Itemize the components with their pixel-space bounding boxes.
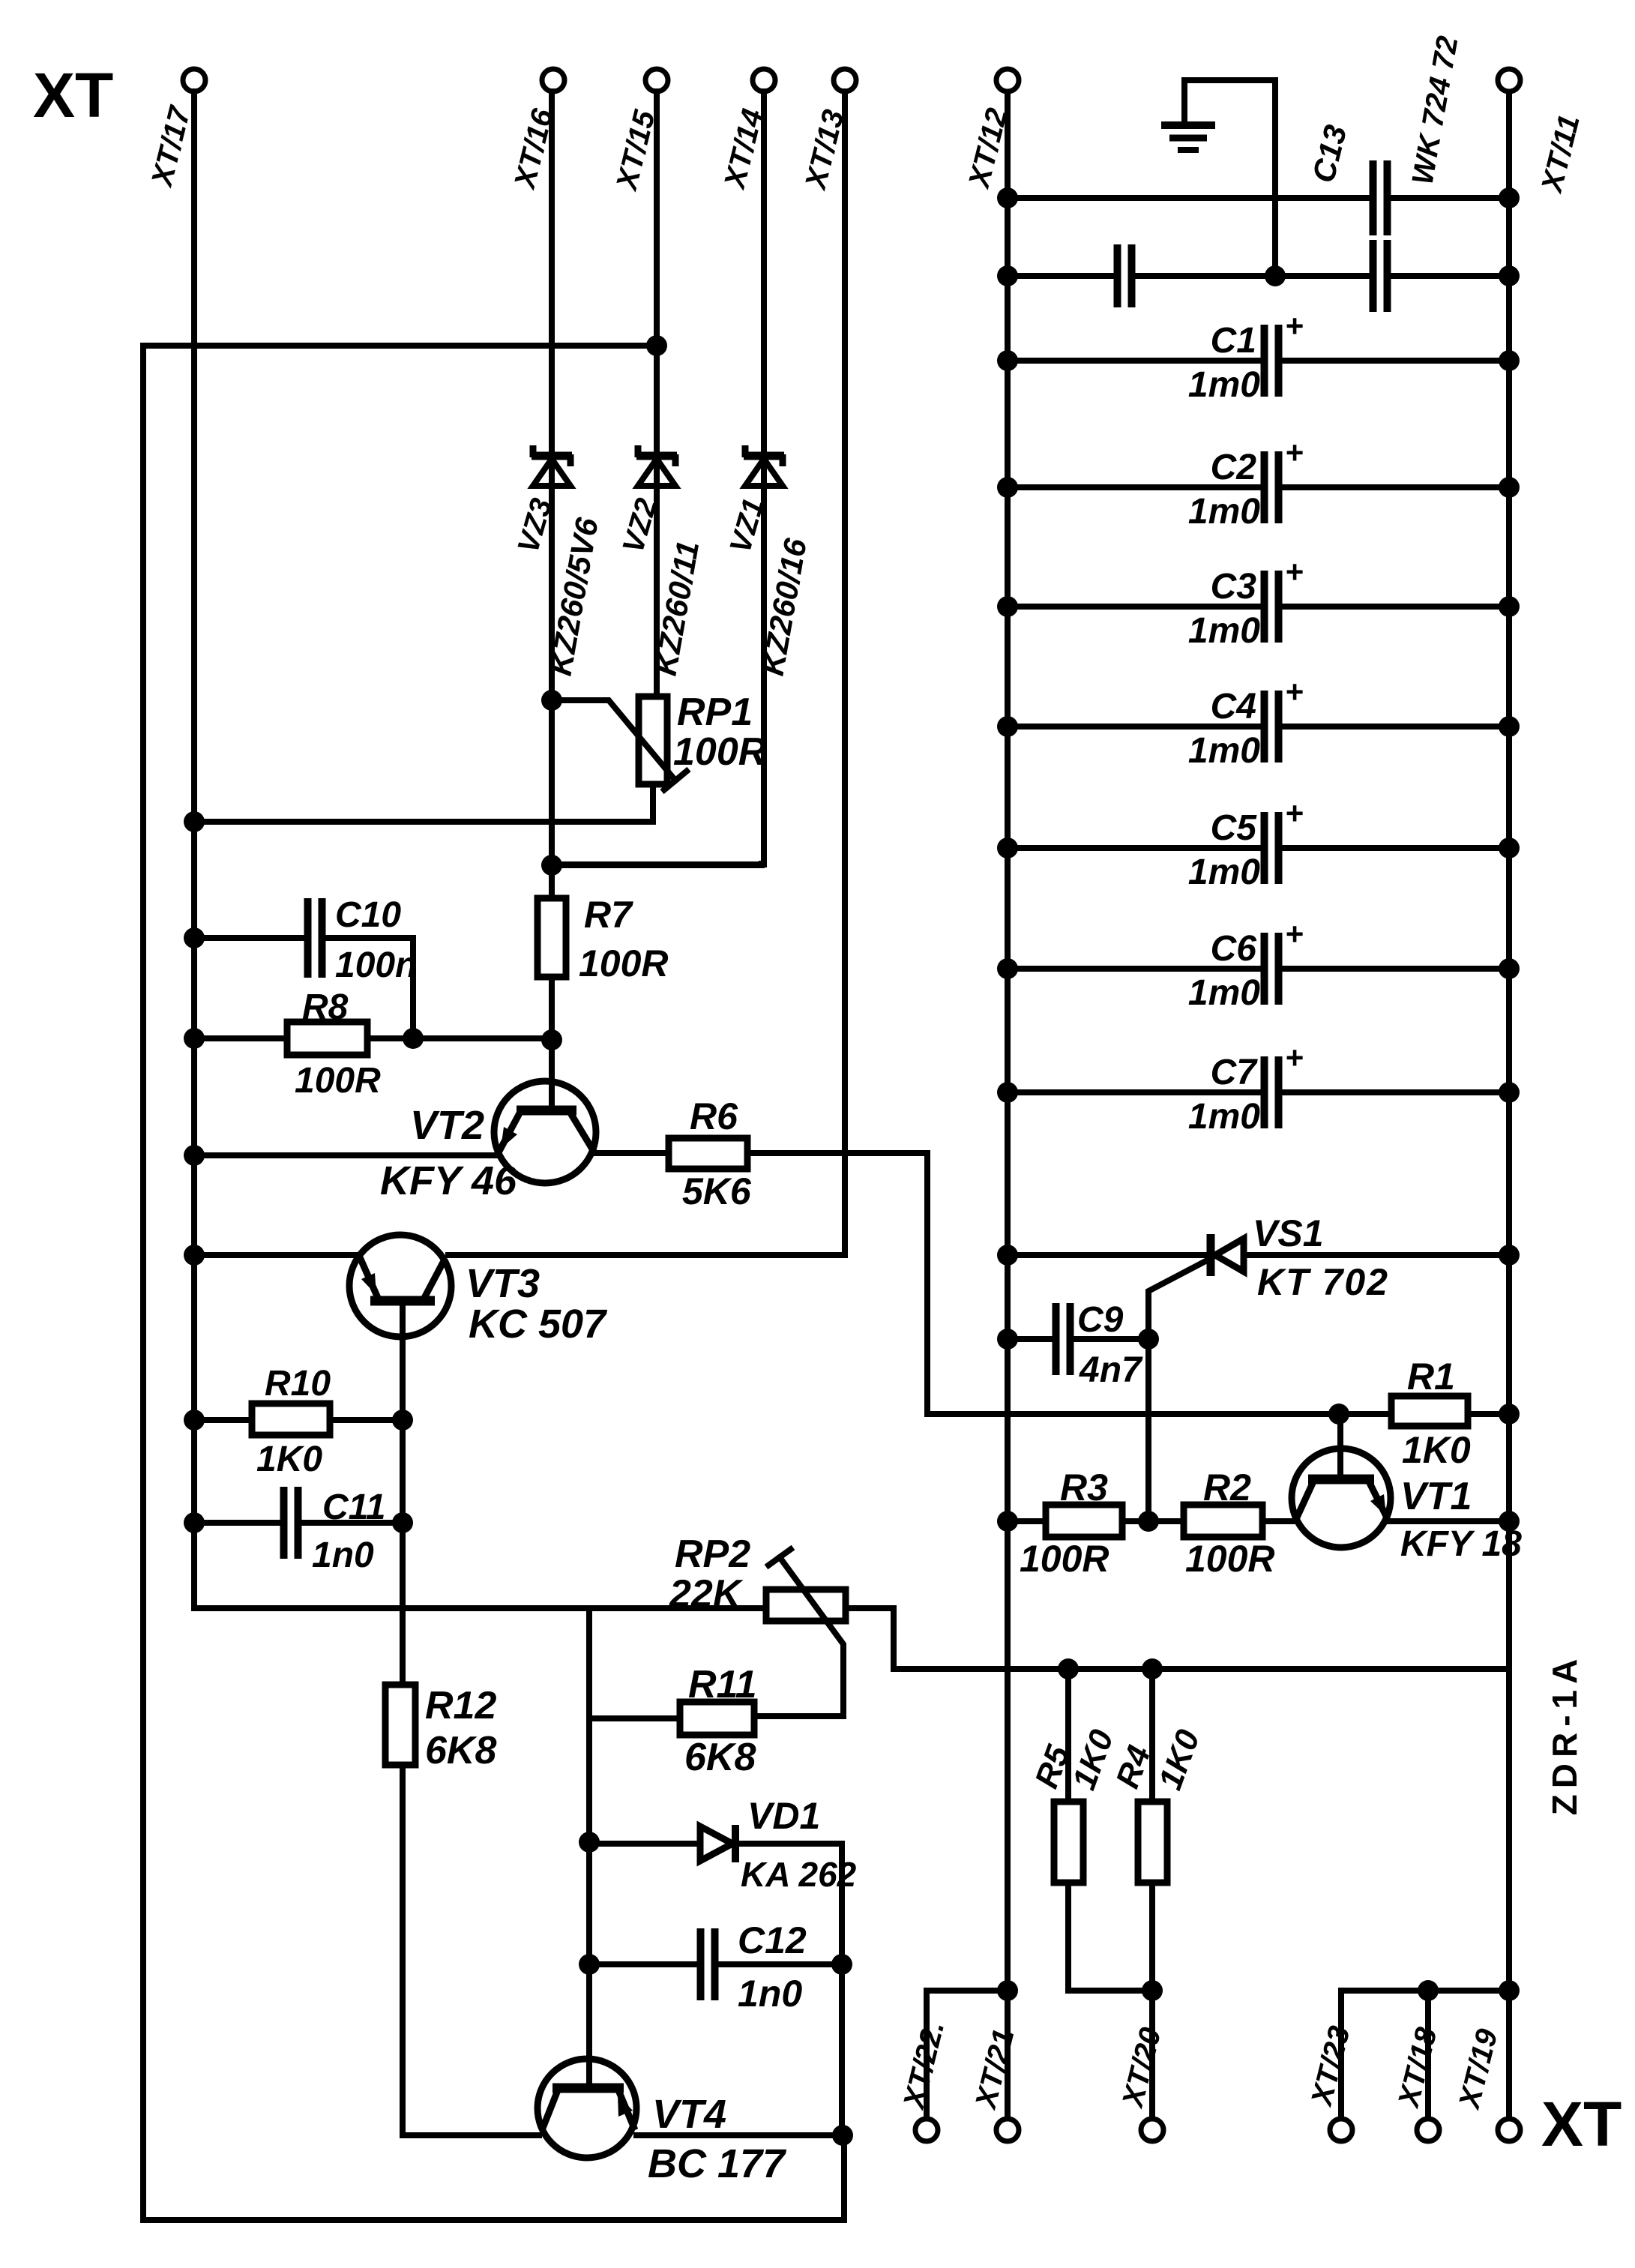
node junction C3 right (1499, 596, 1520, 617)
svg-text:KT 702: KT 702 (1257, 1261, 1389, 1303)
node junction C12 right (831, 1954, 852, 1975)
wire XT/23 to XT/18 line (1341, 1991, 1428, 2118)
node junction C2 left (997, 477, 1018, 498)
label ZDR-1A (1545, 1653, 1584, 1816)
transistor VT3 KC507 (349, 1235, 608, 1347)
node junction C7 left (997, 1082, 1018, 1103)
svg-text:100R: 100R (295, 1061, 381, 1101)
node junction VT1 base on R1 wire (1328, 1404, 1349, 1425)
terminal XT/12 (963, 69, 1019, 192)
svg-text:1m0: 1m0 (1188, 611, 1260, 651)
svg-text:1m0: 1m0 (1188, 365, 1260, 405)
node junction R3/R2/VS1 gate (1138, 1511, 1159, 1532)
zener VZ1 (723, 445, 813, 679)
svg-text:R12: R12 (425, 1684, 496, 1727)
capacitor C13 second section (1373, 240, 1510, 312)
wire top horizontal net XT/15 (143, 343, 657, 349)
node junction C12 left (579, 1954, 600, 1975)
wire XT/16 vertical lower to VT2 base (549, 977, 555, 1110)
node junction VT2 emitter on XT/17 rail (184, 1145, 205, 1166)
capacitor C13 (top section) WK 724 72 (1008, 34, 1509, 235)
capacitor C5 1m0 (1008, 795, 1509, 892)
node junction C7 right (1499, 1082, 1520, 1103)
node junction VZ3 / RP1 wiper (541, 690, 562, 711)
node junction C1 right (1499, 350, 1520, 371)
wire RP2 right to bottom distribution wire (846, 1608, 1509, 1669)
svg-text:ZDR-1A: ZDR-1A (1545, 1653, 1584, 1816)
svg-text:RP2: RP2 (675, 1532, 750, 1576)
svg-text:1n0: 1n0 (738, 1973, 802, 2015)
resistor R5 1K0 (1028, 1669, 1152, 1991)
wire XT/16 vertical (549, 91, 555, 898)
svg-text:XT: XT (1541, 2089, 1622, 2159)
node junction C5 left (997, 837, 1018, 858)
zener VZ3 (511, 445, 605, 679)
wire VT4 emitter to bottom corner (636, 2132, 843, 2138)
wire R12 bottom to VT4 collector (403, 1765, 539, 2135)
svg-text:C9: C9 (1077, 1300, 1124, 1340)
node junction C4 left (997, 716, 1018, 737)
node junction VS1 row left (997, 1245, 1018, 1266)
wire VT1 emitter to right rail (1389, 1518, 1509, 1524)
svg-text:1m0: 1m0 (1188, 731, 1260, 771)
capacitor C4 1m0 (1008, 674, 1509, 771)
potentiometer RP2 22K (669, 1532, 846, 1716)
svg-text:RP1: RP1 (677, 691, 753, 734)
capacitor C1 1m0 (1008, 308, 1509, 405)
node junction RP1 bottom wire on XT/17 rail (184, 811, 205, 832)
resistor R7 100R (538, 894, 669, 984)
terminal XT/19 (1453, 2025, 1520, 2141)
wire VS1 gate down to R3/R2 node (1145, 1339, 1151, 1521)
wire right cap rail XT/11 to XT/19 (1506, 91, 1512, 2118)
capacitor C7 1m0 (1008, 1040, 1509, 1137)
svg-text:1m0: 1m0 (1188, 1097, 1260, 1137)
node junction XT/14 wire on XT/16 line (541, 855, 562, 876)
svg-text:+: + (1285, 308, 1304, 343)
node junction C9 right / VS1 gate (1138, 1329, 1159, 1350)
svg-text:VT1: VT1 (1400, 1475, 1472, 1518)
svg-text:1m0: 1m0 (1188, 492, 1260, 532)
wire VT3 emitter to XT/17 rail (194, 1252, 358, 1258)
node junction VT4 emitter / bottom wire (832, 2125, 853, 2146)
node junction C10/R8 output (403, 1028, 424, 1049)
svg-text:+: + (1285, 435, 1304, 470)
terminal XT/20 (1116, 2024, 1168, 2141)
svg-text:100R: 100R (673, 730, 767, 774)
capacitor C2 1m0 (1008, 435, 1509, 532)
wire ground drop to row2 (1272, 80, 1278, 276)
svg-text:R6: R6 (690, 1095, 738, 1137)
svg-text:C10: C10 (335, 895, 401, 935)
svg-text:+: + (1285, 1040, 1304, 1075)
node junction row1 right (1499, 187, 1520, 208)
svg-text:C6: C6 (1211, 929, 1257, 969)
wire XT/22 to XT/21 rail (927, 1991, 1008, 2118)
node junction R1 right (1499, 1404, 1520, 1425)
node junction row1 left (997, 187, 1018, 208)
resistor R1 1K0 (1391, 1356, 1509, 1471)
node junction C3 left (997, 596, 1018, 617)
svg-text:R2: R2 (1203, 1467, 1251, 1509)
terminal XT/17 (145, 69, 205, 190)
terminal XT/14 (718, 69, 775, 193)
svg-text:BC 177: BC 177 (648, 2141, 787, 2186)
terminal XT/16 (508, 69, 564, 193)
node junction XT/22 on XT/21 rail (997, 1980, 1018, 2001)
svg-text:C3: C3 (1211, 567, 1257, 607)
svg-text:C4: C4 (1211, 687, 1256, 727)
wire C12 right vertical to emitter wire (839, 1964, 845, 2135)
big label XT (bottom right) (1541, 2089, 1622, 2159)
terminal XT/11 (1498, 69, 1586, 196)
transistor VT4 BC177 (538, 2059, 787, 2186)
node junction ground on row2 (1265, 265, 1286, 286)
resistor R6 5K6 (596, 1095, 752, 1212)
svg-text:VS1: VS1 (1253, 1212, 1324, 1254)
thyristor VS1 KT702 (1008, 1212, 1509, 1339)
wire left cap rail XT/12 to XT/21 (1005, 91, 1011, 2118)
resistor R3 100R (1008, 1467, 1122, 1580)
svg-text:C5: C5 (1211, 808, 1258, 848)
resistor R8 100R (194, 987, 552, 1101)
node junction XT/23 on XT/18 line (1418, 1980, 1439, 2001)
potentiometer RP1 100R (552, 691, 767, 792)
svg-text:1m0: 1m0 (1188, 973, 1260, 1013)
node junction C6 right (1499, 958, 1520, 979)
node junction y2655 on right rail (1499, 1980, 1520, 2001)
svg-text:C11: C11 (322, 1488, 386, 1527)
svg-text:R1: R1 (1407, 1356, 1455, 1398)
svg-text:1K0: 1K0 (1402, 1429, 1471, 1471)
resistor R10 1K0 (194, 1364, 403, 1479)
svg-text:+: + (1285, 674, 1304, 709)
wire XT/18 vertical (1428, 1991, 1509, 2118)
node junction C4 right (1499, 716, 1520, 737)
wire VT3 base down (400, 1301, 406, 1685)
node junction C11 left (184, 1512, 205, 1533)
node junction row2 right (1499, 265, 1520, 286)
svg-text:4n7: 4n7 (1079, 1350, 1143, 1390)
terminal XT/23 (1305, 2023, 1357, 2141)
node junction R10 left (184, 1410, 205, 1431)
svg-text:1m0: 1m0 (1188, 852, 1260, 892)
wire RP1 bottom to XT/17 rail (194, 784, 653, 822)
node junction R4 top (1142, 1658, 1163, 1679)
wire VZ1 row to R7 top (552, 864, 762, 865)
svg-text:100R: 100R (579, 942, 669, 984)
terminal XT/18 (1392, 2024, 1444, 2141)
svg-text:KC 507: KC 507 (469, 1302, 608, 1347)
terminal XT/22 (897, 2018, 951, 2141)
svg-text:VT3: VT3 (466, 1261, 540, 1306)
svg-text:6K8: 6K8 (425, 1729, 496, 1772)
svg-text:5K6: 5K6 (682, 1170, 752, 1212)
svg-text:1K0: 1K0 (256, 1440, 322, 1479)
svg-text:VT4: VT4 (652, 2092, 726, 2137)
svg-text:100n: 100n (335, 945, 417, 985)
wire XT/17 rail down to RP2 wire (194, 91, 766, 1608)
wire XT/13 vertical and corner to VT3 collector (448, 91, 845, 1255)
resistor R2 100R (1122, 1467, 1293, 1580)
svg-text:C1: C1 (1211, 321, 1256, 361)
svg-text:100R: 100R (1185, 1538, 1275, 1580)
svg-text:+: + (1285, 795, 1304, 831)
node junction R5/R4 bottom (1142, 1980, 1163, 2001)
node junction R10 right on VT3 base (392, 1410, 413, 1431)
svg-text:100R: 100R (1020, 1538, 1109, 1580)
capacitor C8 (row2 left) (1008, 244, 1370, 307)
node junction C6 left (997, 958, 1018, 979)
wire R11 left vertical to VT4 base (586, 1608, 592, 2088)
capacitor C6 1m0 (1008, 916, 1509, 1013)
node junction C5 right (1499, 837, 1520, 858)
svg-text:R10: R10 (265, 1364, 331, 1404)
svg-text:VD1: VD1 (747, 1795, 820, 1837)
resistor R12 6K8 (385, 1684, 496, 1772)
node junction row2 left (997, 265, 1018, 286)
svg-text:R8: R8 (302, 987, 349, 1027)
wire XT/14 vertical and corner to XT/16 line (552, 91, 764, 864)
node junction R8 left (184, 1028, 205, 1049)
svg-text:+: + (1285, 916, 1304, 951)
svg-text:KFY 46: KFY 46 (380, 1158, 517, 1203)
node junction C2 right (1499, 477, 1520, 498)
svg-text:R7: R7 (584, 894, 633, 936)
node junction VS1 row right (1499, 1245, 1520, 1266)
node junction R5 top (1058, 1658, 1079, 1679)
node junction C11 right on VT3 base (392, 1512, 413, 1533)
node junction C10 left (184, 927, 205, 948)
transistor VT2 KFY46 (380, 1040, 596, 1203)
big label XT (top left) (33, 60, 113, 130)
terminal XT/15 (610, 69, 668, 194)
transistor VT1 KFY18 (1292, 1414, 1522, 1564)
capacitor C9 4n7 (1008, 1300, 1148, 1390)
capacitor C11 1n0 (194, 1487, 403, 1575)
wire left outer rail to bottom wire (143, 346, 844, 2220)
ground (1161, 77, 1275, 150)
svg-text:C7: C7 (1211, 1053, 1259, 1092)
zener VZ2 (616, 445, 705, 679)
svg-text:1n0: 1n0 (312, 1535, 374, 1575)
svg-text:R11: R11 (688, 1663, 757, 1706)
svg-text:XT: XT (33, 60, 113, 130)
wire XT/15 vertical to RP1 (654, 91, 660, 697)
node junction C9 left (997, 1329, 1018, 1350)
diode VD1 KA262 (589, 1795, 857, 1964)
svg-text:22K: 22K (669, 1572, 744, 1616)
resistor R4 1K0 (1109, 1669, 1207, 2118)
svg-text:+: + (1285, 554, 1304, 589)
node junction R3 left (997, 1511, 1018, 1532)
capacitor C10 100n (194, 895, 417, 1038)
capacitor C12 1n0 (589, 1919, 842, 2015)
wire VT2 emitter to XT/17 rail (194, 1152, 496, 1158)
capacitor C3 1m0 (1008, 554, 1509, 651)
terminal XT/13 (799, 69, 856, 193)
terminal XT/21 (969, 2026, 1021, 2141)
svg-text:VT2: VT2 (410, 1103, 484, 1148)
svg-text:R3: R3 (1060, 1467, 1108, 1509)
node junction VD1 left (579, 1832, 600, 1853)
svg-text:6K8: 6K8 (684, 1736, 756, 1779)
node junction XT/15 top wire (646, 335, 667, 356)
node junction VT1 emitter right rail (1499, 1511, 1520, 1532)
wire R6 to R1 row (747, 1153, 1391, 1414)
resistor R11 6K8 (589, 1663, 757, 1779)
svg-text:C2: C2 (1211, 448, 1257, 487)
node junction C1 left (997, 350, 1018, 371)
node junction VT3 emitter on XT/17 rail (184, 1245, 205, 1266)
svg-text:KA 262: KA 262 (741, 1855, 857, 1894)
node junction R7/R8/VT2 base (541, 1029, 562, 1050)
svg-text:C12: C12 (738, 1919, 807, 1961)
